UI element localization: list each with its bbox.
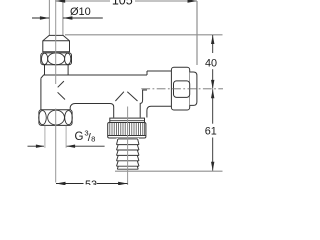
centerline vertical axis of inlet (upper segment) [55,0,57,84]
dimension Ø10 [32,16,103,20]
left nut right facet arc [65,111,73,125]
knurling [110,123,145,136]
body top edge with chamfered corner [41,75,147,78]
105-dim extension line right [196,1,198,65]
centerline of hose outlet (53-dim right extension) [127,107,129,186]
chamfer mark outlet falling [127,92,137,101]
left nut left facet arc [39,111,47,125]
flange mid line [110,120,145,122]
svg-text:Ø10: Ø10 [70,6,91,18]
dimension 53 (bottom) [56,182,128,186]
body left edge [40,78,42,110]
centerline horizontal of cartridge axis (dash-dot) [141,88,223,90]
compression fitting trapezoid [43,35,70,51]
chamfer mark left lower [58,92,65,99]
bonnet top edge [147,70,171,72]
barb left sawtooth side [117,139,119,169]
knurled nut bottom lip line [108,135,146,137]
hex nut left facet arc [42,53,48,64]
barb rib 5 [117,165,140,167]
left nut center facet [48,110,65,125]
hex nut right facet arc [65,53,71,64]
barb top edge [118,138,138,140]
body step and outlet stub right edge [140,90,147,118]
wire: extension line y=34.8 top of fitting (40-dim reference) [65,34,223,36]
neck below top nut right edge [67,65,69,75]
cartridge end cap [190,72,197,105]
G3/8 union nut (bottom left) [39,110,72,126]
inlet pipe Ø10 left edge [48,0,50,35]
svg-text:8: 8 [91,135,95,144]
bonnet left step edge [146,71,148,75]
inlet pipe Ø10 right edge [62,0,64,35]
bonnet bottom edge with corner to outlet wall [147,106,172,117]
hex nut center facet [48,53,65,65]
svg-text:61: 61 [205,125,217,137]
svg-text:40: 40 [205,58,217,70]
svg-text:G: G [75,131,84,143]
barb rib 3 [117,154,140,156]
hose outlet flange [110,118,145,122]
centerline vertical axis through G3/8 nut (53-dim left extension) [55,109,57,183]
svg-text:53: 53 [85,179,97,185]
barb rib 1 [117,144,140,146]
chamfer mark outlet rising [115,92,124,101]
G3/8 thread extension line left [44,126,46,148]
barb rib 2 [117,149,140,151]
dimension 40 (right) [211,35,214,89]
valve body fill [41,75,147,118]
neck below top nut left edge [44,65,46,75]
bonnet cylinder fill [147,71,171,106]
hose barb fill [117,138,139,169]
chamfer mark left upper [58,81,64,87]
body underside left and outlet stub left edge [70,104,114,118]
dimension 105 (top) [56,0,197,3]
cartridge nut facet [174,81,190,98]
knurled nut [108,123,146,139]
dimension G 3/8 [28,145,105,148]
cartridge hex nut [171,67,189,110]
wire: extension line y=171.2 hose end (61-dim bottom reference) [115,170,223,172]
compression fitting lip line [43,40,70,42]
svg-text:105: 105 [112,0,133,7]
dimension 61 (right) [211,89,214,171]
G3/8 thread extension line right [65,126,67,148]
barb rib 4 [117,160,140,162]
barb bottom edge [117,168,138,170]
barb right sawtooth side [137,139,139,169]
hex nut (top fitting) [41,53,72,65]
